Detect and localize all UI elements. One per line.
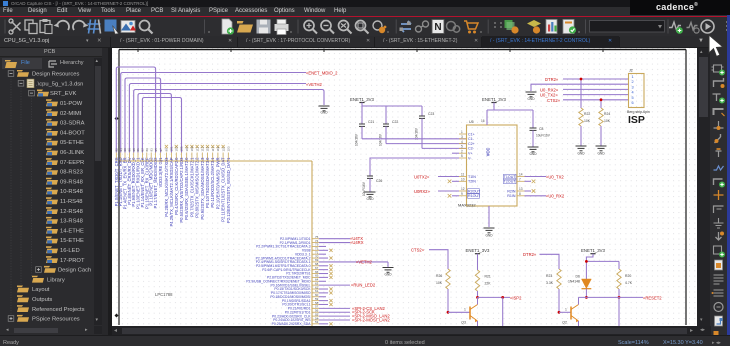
svg-text:GND: GND	[384, 273, 392, 277]
menu bar	[0, 7, 730, 16]
svg-text:«U0_RX2: «U0_RX2	[546, 194, 565, 199]
svg-text:10: 10	[461, 178, 465, 182]
svg-text:11: 11	[461, 173, 465, 177]
svg-text:CTS2»: CTS2»	[411, 248, 425, 253]
svg-text:10K: 10K	[604, 119, 611, 123]
svg-text:D6: D6	[576, 275, 580, 279]
U5 left pins	[459, 130, 475, 160]
svg-text:14-ETHE: 14-ETHE	[60, 228, 84, 234]
wire base Q3	[448, 311, 470, 313]
svg-text:GND: GND	[527, 97, 535, 101]
wire down from ISP2	[502, 297, 504, 326]
svg-text:2: 2	[632, 80, 634, 84]
svg-text:10K: 10K	[436, 281, 443, 285]
svg-text:GND: GND	[485, 234, 493, 238]
svg-text:104/16V: 104/16V	[415, 127, 419, 140]
ground (U5)	[484, 228, 495, 233]
wire down (R20)	[618, 297, 620, 326]
svg-text:16: 16	[481, 119, 485, 123]
svg-text:15-ETHE: 15-ETHE	[60, 238, 84, 244]
wire R21 top	[477, 254, 479, 270]
svg-text:«U4RX: «U4RX	[350, 240, 364, 245]
svg-text:87: 87	[141, 148, 145, 152]
resistor R24	[599, 108, 611, 146]
svg-text:C26: C26	[376, 179, 382, 183]
svg-text:C2-: C2-	[468, 147, 475, 151]
svg-text:3: 3	[632, 85, 634, 89]
capacitor C22	[379, 120, 399, 146]
svg-text:10uF/16V: 10uF/16V	[362, 181, 366, 196]
svg-text:Referenced Projects: Referenced Projects	[32, 307, 85, 313]
ground (VETH2)	[387, 262, 389, 268]
wire V+	[452, 152, 459, 154]
svg-text:«SPI-2-MOSI_LAN2: «SPI-2-MOSI_LAN2	[352, 317, 390, 322]
svg-text:95: 95	[154, 148, 158, 152]
svg-text:123: 123	[227, 146, 231, 151]
svg-text:90: 90	[123, 148, 127, 152]
svg-text:R1IN: R1IN	[507, 194, 516, 198]
wire CTS2 down	[429, 250, 448, 269]
svg-text:13-RS48: 13-RS48	[60, 219, 83, 225]
svg-text:DTR2»: DTR2»	[545, 77, 559, 82]
resistor R26	[436, 269, 450, 312]
svg-text:14: 14	[519, 173, 523, 177]
schematic canvas	[112, 48, 697, 326]
svg-text:5: 5	[461, 145, 463, 149]
svg-text:VDD3.3(RE G)1: VDD3.3(RE G)1	[158, 157, 163, 188]
svg-text:Layout: Layout	[32, 287, 50, 293]
junction	[585, 296, 588, 299]
svg-text:109: 109	[190, 146, 194, 151]
junction	[476, 296, 479, 299]
wire DTR2 down	[540, 254, 560, 269]
toolbar	[0, 17, 730, 36]
svg-text:107: 107	[185, 146, 189, 151]
capacitor C26	[362, 176, 382, 196]
svg-text:V+: V+	[468, 152, 473, 156]
svg-text:119: 119	[216, 146, 220, 151]
svg-text:ISP: ISP	[628, 114, 645, 126]
svg-text:113: 113	[201, 146, 205, 151]
svg-text:104/16V: 104/16V	[355, 133, 359, 146]
svg-text:91: 91	[136, 148, 140, 152]
junction	[558, 311, 561, 314]
svg-text:1N4148: 1N4148	[568, 280, 580, 284]
svg-text:4.7K: 4.7K	[625, 281, 633, 285]
svg-text:1: 1	[632, 75, 634, 79]
ground (C26)	[365, 192, 376, 197]
IC U1 LPC1788 body	[120, 160, 313, 162]
svg-text:T2IN: T2IN	[468, 180, 476, 184]
svg-text:GND: GND	[366, 197, 374, 201]
svg-text:PSpice Resources: PSpice Resources	[32, 317, 80, 323]
svg-text:C23: C23	[428, 112, 434, 116]
blue edge strip	[727, 15, 730, 345]
power ENET1_3V3 (caps rail)	[359, 102, 364, 104]
svg-text:ENET1_3V3: ENET1_3V3	[581, 248, 605, 253]
svg-text:12-RS48: 12-RS48	[60, 209, 83, 215]
canvas vertical scrollbar	[697, 48, 710, 326]
capacitor C8	[530, 127, 551, 147]
IC U1 top pin names	[114, 157, 231, 227]
cadence logo	[630, 0, 730, 15]
svg-text:4: 4	[461, 140, 463, 144]
svg-text:10-RS48: 10-RS48	[60, 189, 83, 195]
diode D6 1N4148	[568, 275, 591, 298]
IC U1 top pins	[115, 145, 231, 161]
U5 right pins	[504, 173, 547, 198]
svg-text:93: 93	[149, 148, 153, 152]
svg-text:92: 92	[115, 148, 119, 152]
svg-text:11-RS48: 11-RS48	[60, 199, 82, 205]
capacitor C23	[415, 112, 435, 148]
IC U1 right pins	[246, 235, 388, 326]
svg-text:ENET1_3V3: ENET1_3V3	[350, 97, 374, 102]
wire 3v3 to D6/R20	[586, 254, 619, 279]
resistor R22	[579, 108, 591, 146]
svg-text:6: 6	[461, 154, 463, 158]
power ENET1_3V3 (U5)	[491, 102, 496, 104]
svg-text:105: 105	[180, 146, 184, 151]
svg-text:104/16V: 104/16V	[379, 133, 383, 146]
svg-text:«U0_TX2: «U0_TX2	[546, 174, 564, 179]
title bar	[0, 0, 730, 7]
svg-text:CTS2»: CTS2»	[547, 98, 561, 103]
wire bundle top-left	[116, 67, 324, 153]
svg-text:T1OUT: T1OUT	[504, 175, 517, 179]
svg-text:ENET1_3V3: ENET1_3V3	[466, 248, 490, 253]
svg-text:Q2: Q2	[562, 321, 567, 325]
ISP wires	[531, 79, 629, 108]
svg-text:3: 3	[461, 135, 463, 139]
svg-text:MAX3232: MAX3232	[458, 203, 476, 208]
U5 TR left pins	[438, 173, 481, 199]
power ENET1_3V3 (Q3)	[475, 253, 480, 255]
svg-text:03-SDRA: 03-SDRA	[60, 121, 85, 127]
svg-text:22K: 22K	[485, 282, 492, 286]
svg-text:«ENET_MDIO_2: «ENET_MDIO_2	[306, 71, 338, 76]
svg-text:C1+: C1+	[468, 132, 475, 136]
svg-text:6: 6	[632, 101, 634, 105]
svg-text:.\cpu_5g_v1.3.dsn: .\cpu_5g_v1.3.dsn	[36, 81, 83, 87]
left panel h-scrollbar	[0, 326, 102, 334]
svg-text:N: N	[434, 22, 441, 33]
ground (R22)	[576, 146, 587, 151]
junction	[600, 98, 603, 101]
capacitor C21	[355, 120, 375, 146]
svg-text:P2.12/EINT2/I2STX_WS/SD_DAT1: P2.12/EINT2/I2STX_WS/SD_DAT1	[226, 157, 231, 223]
svg-text:01-POW: 01-POW	[60, 101, 83, 107]
svg-text:R24: R24	[604, 112, 610, 116]
svg-text:9: 9	[461, 192, 463, 196]
svg-text:R21: R21	[485, 275, 491, 279]
svg-text:GND: GND	[597, 152, 605, 156]
svg-text:121: 121	[221, 146, 225, 151]
svg-text:«VETH2: «VETH2	[356, 259, 372, 264]
svg-text:4: 4	[632, 91, 634, 95]
svg-text:111: 111	[195, 147, 199, 152]
connector J2	[629, 69, 645, 108]
transistor Q2	[562, 297, 578, 326]
svg-text:LPC1788: LPC1788	[155, 292, 173, 297]
svg-text:Library: Library	[47, 277, 65, 283]
svg-text:C22: C22	[392, 120, 398, 124]
resistor R23	[546, 269, 561, 312]
wire ISP2	[478, 296, 511, 298]
svg-text:99: 99	[165, 148, 169, 152]
svg-text:Design Resources: Design Resources	[32, 72, 79, 78]
svg-text:R26: R26	[436, 274, 442, 278]
svg-text:R20: R20	[625, 274, 631, 278]
wire VCC	[487, 103, 533, 129]
status bar	[0, 335, 730, 345]
resistor R21	[475, 270, 491, 297]
svg-text:U0TX2»: U0TX2»	[414, 174, 430, 179]
svg-text:GND: GND	[320, 111, 328, 115]
panel/canvas divider	[102, 48, 112, 335]
wire V- to C26	[370, 158, 459, 176]
wire RESET2	[579, 296, 644, 298]
junction	[447, 311, 450, 314]
resistor R20	[617, 269, 633, 297]
svg-text:R23: R23	[546, 274, 552, 278]
junction	[585, 260, 588, 263]
svg-text:DTR2»: DTR2»	[523, 252, 537, 257]
svg-text:C21: C21	[368, 120, 374, 124]
svg-text:04-BOOT: 04-BOOT	[60, 130, 85, 136]
right toolbar	[710, 36, 727, 335]
svg-text:2: 2	[461, 149, 463, 153]
svg-text:7: 7	[519, 178, 521, 182]
svg-text:1: 1	[461, 130, 463, 134]
svg-text:101: 101	[170, 146, 174, 151]
left project panel	[0, 48, 110, 335]
svg-text:1: 1	[565, 308, 567, 312]
wires caps to U5	[362, 139, 467, 149]
svg-text:«RUN_LED2: «RUN_LED2	[351, 283, 376, 288]
svg-text:SRT_EVK: SRT_EVK	[50, 91, 76, 97]
svg-text:5: 5	[632, 96, 634, 100]
svg-text:16-LED: 16-LED	[60, 248, 80, 254]
svg-text:02-MIMI: 02-MIMI	[60, 111, 82, 117]
svg-text:17-PROT: 17-PROT	[60, 258, 85, 264]
junction	[501, 296, 504, 299]
svg-text:05-ETHE: 05-ETHE	[60, 140, 84, 146]
svg-text:89: 89	[145, 148, 149, 152]
svg-text:R1OUT: R1OUT	[468, 194, 481, 198]
svg-text:8: 8	[519, 192, 521, 196]
svg-text:T2OUT: T2OUT	[504, 180, 517, 184]
svg-text:53: 53	[315, 320, 319, 324]
svg-text:R22: R22	[584, 112, 590, 116]
svg-text:C1-: C1-	[468, 137, 475, 141]
svg-text:«ISP2: «ISP2	[510, 295, 522, 300]
svg-text:R2OUT: R2OUT	[468, 189, 481, 193]
svg-text:10K: 10K	[584, 119, 591, 123]
junction	[618, 296, 621, 299]
svg-text:U0RX2»: U0RX2»	[414, 189, 430, 194]
ground (R24)	[596, 146, 607, 151]
svg-text:GND: GND	[577, 152, 585, 156]
canvas horizontal scrollbar	[112, 326, 711, 335]
svg-text:12: 12	[461, 187, 465, 191]
svg-text:3.3K: 3.3K	[546, 281, 554, 285]
svg-text:103: 103	[175, 146, 179, 151]
wire base Q2	[559, 311, 571, 313]
mouse cursor	[707, 34, 727, 58]
svg-text:U5: U5	[469, 120, 474, 124]
svg-text:J2: J2	[629, 69, 633, 73]
svg-text:97: 97	[159, 148, 163, 152]
svg-text:09-RS48: 09-RS48	[60, 179, 83, 185]
svg-text:10uF/16V: 10uF/16V	[536, 134, 551, 138]
page border frame	[115, 49, 687, 326]
transistor Q3	[461, 297, 477, 326]
svg-text:Design Cach: Design Cach	[58, 268, 91, 274]
svg-text:06-JLINK: 06-JLINK	[60, 150, 84, 156]
ground (C8)	[528, 147, 539, 152]
svg-text:08-RS23: 08-RS23	[60, 170, 83, 176]
power ENET1_3V3 (Q2)	[590, 253, 595, 255]
svg-text:«RESET2: «RESET2	[643, 295, 662, 300]
red accent line	[0, 16, 730, 18]
ground (wire bundle)	[319, 106, 330, 111]
svg-text:Outputs: Outputs	[32, 297, 52, 303]
svg-text:C2+: C2+	[468, 142, 475, 146]
svg-text:C8: C8	[539, 127, 543, 131]
svg-text:13: 13	[519, 187, 523, 191]
svg-text:1: 1	[464, 308, 466, 312]
svg-text:VCC: VCC	[486, 148, 491, 157]
svg-text:GND: GND	[529, 152, 537, 156]
junction	[580, 78, 583, 81]
ground (ISP wire2)	[526, 92, 537, 97]
svg-text:07-EEPR: 07-EEPR	[60, 160, 84, 166]
wire U5 gnd	[488, 206, 490, 227]
svg-text:«VETH2: «VETH2	[306, 82, 322, 87]
IC U5 MAX3232 body	[467, 125, 518, 206]
svg-text:ENET1_3V3: ENET1_3V3	[482, 97, 506, 102]
svg-text:R2IN: R2IN	[507, 189, 516, 193]
wire power rail	[362, 103, 422, 125]
svg-text:117: 117	[211, 146, 215, 151]
svg-text:Q3: Q3	[461, 321, 466, 325]
svg-text:115: 115	[206, 146, 210, 151]
tab bar	[0, 36, 730, 48]
svg-text:T1IN: T1IN	[468, 175, 476, 179]
